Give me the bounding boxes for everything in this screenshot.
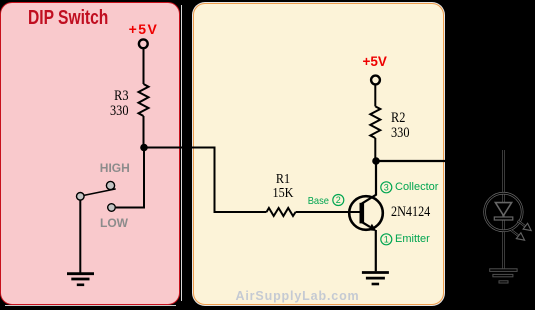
- net +5V (left): [129, 21, 159, 37]
- wire pole to ground: [79, 200, 81, 273]
- svg-text:3: 3: [384, 183, 389, 193]
- LED D1 body circle (ghost): [485, 193, 523, 231]
- wire +5V to R3: [143, 48, 145, 84]
- panel: DIP Switch block: [0, 2, 180, 305]
- resistor R1: [267, 208, 296, 216]
- wire node A down to switch: [116, 148, 144, 208]
- node A junction: [140, 144, 148, 152]
- pin number 2 (base): [333, 195, 344, 206]
- switch SW1 LOW contact: [108, 204, 116, 212]
- LED D1 emission arrow 2 (ghost): [511, 230, 524, 240]
- wire R3 to node A: [143, 116, 145, 148]
- wire collector node to panel edge: [376, 160, 445, 162]
- switch SW1 pole: [77, 193, 85, 201]
- value label R1 / 15K: [273, 173, 294, 202]
- resistor R2: [370, 106, 380, 138]
- LED D1 cathode bar (ghost): [494, 217, 513, 220]
- value label R2 / 330: [391, 111, 409, 141]
- value label 2N4124: [391, 204, 430, 221]
- LED D1 emission arrow 1 (ghost): [518, 221, 532, 231]
- svg-text:1: 1: [384, 235, 389, 245]
- pin label (3) Collector: [395, 181, 438, 193]
- LED D1 anode triangle (ghost): [495, 203, 511, 216]
- wire node A to middle panel: [144, 148, 267, 213]
- ground (left): [67, 274, 94, 285]
- transistor Q1 body: [349, 196, 383, 230]
- watermark AirSupplyLab.com: [235, 289, 359, 303]
- wire R1 to base: [296, 211, 360, 213]
- terminal +5V middle: [371, 76, 380, 85]
- ground (LED, ghost): [490, 269, 517, 283]
- transistor Q1 emitter arrow: [362, 222, 377, 231]
- pin label (1) Emitter: [395, 233, 430, 245]
- collector node junction: [372, 157, 380, 165]
- switch SW1 HIGH contact: [106, 181, 114, 189]
- LED D1 lead (ghost): [502, 150, 504, 269]
- switch SW1 lever: [84, 189, 116, 196]
- label: DIP Switch title: [28, 7, 108, 30]
- resistor R3: [139, 84, 149, 116]
- wire collector lead: [362, 161, 376, 204]
- transistor Q1 base bar: [359, 203, 364, 224]
- pin label Base (2): [285, 195, 330, 207]
- value label R3 / 330: [95, 89, 128, 120]
- wire emitter to ground: [375, 230, 377, 271]
- label LOW: [100, 216, 128, 230]
- svg-text:2: 2: [336, 195, 341, 205]
- pin number 3 (collector): [381, 182, 392, 193]
- terminal +5V left: [139, 39, 148, 48]
- pin number 1 (emitter): [381, 234, 392, 245]
- wire +5V to R2: [374, 84, 376, 106]
- ground (middle): [362, 273, 389, 285]
- net +5V (middle): [362, 54, 386, 69]
- label HIGH: [100, 161, 130, 175]
- panel: transistor block: [193, 3, 444, 305]
- wire R2 to collector node: [374, 138, 376, 161]
